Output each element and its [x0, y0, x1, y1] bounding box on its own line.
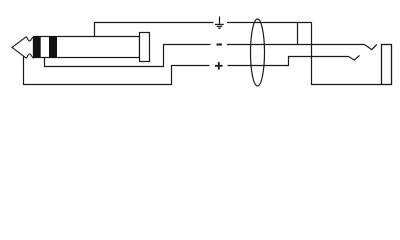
wire shield bus right segment: [227, 22, 312, 24]
socket contact upper (ring/shield side) with detent: [365, 44, 377, 49]
wire shield down to socket sleeve: [312, 23, 382, 85]
ground symbol: [215, 17, 224, 29]
plug J1 collar: [140, 33, 150, 62]
minus symbol: [217, 44, 223, 46]
plug J1 tip: [12, 37, 33, 58]
plug J1 insulator band 2: [49, 36, 57, 58]
socket contact lower (tip side) with detent: [349, 55, 360, 60]
wire minus bus right segment: [227, 44, 365, 46]
cable cross-section ellipse: [251, 19, 265, 86]
plug J1 body outline (TRS jack plug shaft): [34, 37, 140, 58]
plus symbol: [215, 62, 223, 69]
wire sleeve-to-shield riser: [95, 23, 214, 37]
plug J1 insulator band 1: [33, 36, 41, 58]
wire shield branch to minus junction: [297, 23, 299, 45]
wire ring to minus bus: [45, 45, 211, 67]
wire tip to plus bus: [24, 56, 210, 85]
wire plus bus right segment: [228, 57, 349, 66]
socket sleeve end block: [382, 45, 392, 85]
